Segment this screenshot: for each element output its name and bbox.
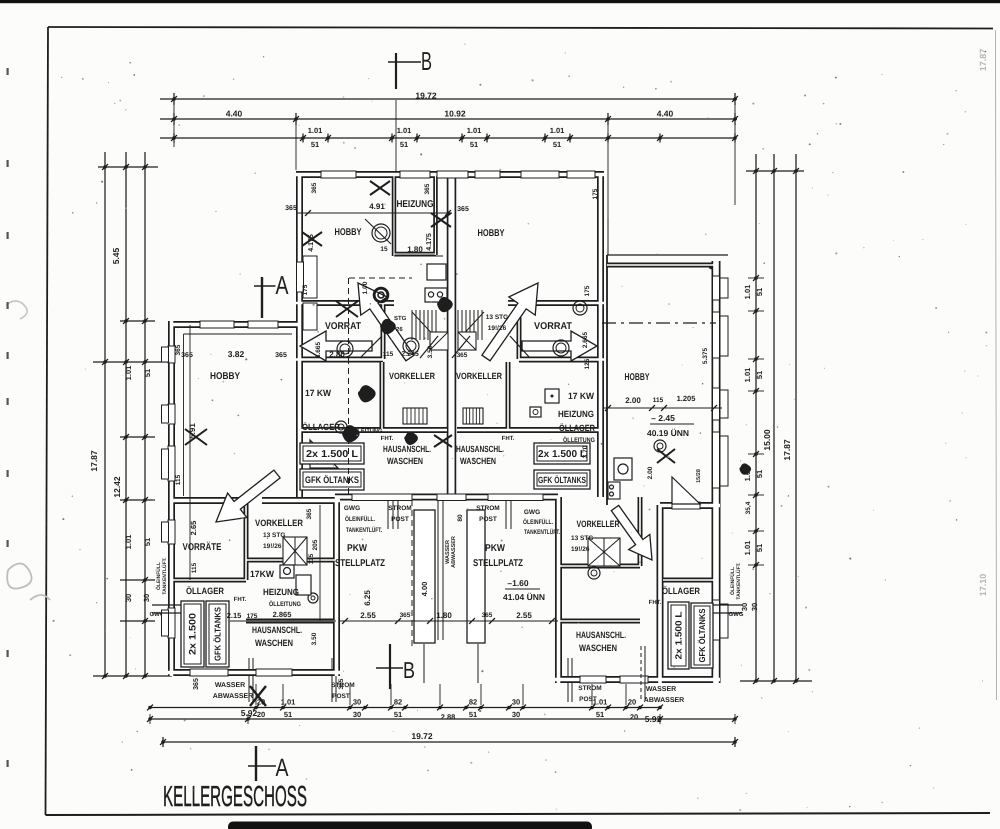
svg-text:2x 1.500 L: 2x 1.500 L bbox=[674, 611, 684, 660]
svg-text:GFK ÖLTANKS: GFK ÖLTANKS bbox=[538, 475, 586, 485]
svg-text:2.865: 2.865 bbox=[273, 610, 292, 619]
svg-text:2x 1.500 L: 2x 1.500 L bbox=[538, 449, 586, 460]
svg-text:WASCHEN: WASCHEN bbox=[255, 638, 293, 648]
svg-text:30: 30 bbox=[750, 603, 759, 611]
svg-text:19.72: 19.72 bbox=[411, 731, 433, 741]
svg-text:WASCHEN: WASCHEN bbox=[387, 456, 423, 466]
svg-text:17KW: 17KW bbox=[250, 569, 274, 579]
svg-text:2.88: 2.88 bbox=[441, 713, 456, 722]
svg-text:4.91: 4.91 bbox=[369, 202, 385, 211]
svg-text:115: 115 bbox=[653, 397, 664, 404]
svg-text:WASSER: WASSER bbox=[215, 682, 245, 689]
svg-text:82: 82 bbox=[469, 698, 477, 707]
svg-text:13 STG: 13 STG bbox=[486, 314, 508, 321]
svg-text:51: 51 bbox=[553, 140, 561, 149]
svg-text:ÖLLAGER: ÖLLAGER bbox=[559, 423, 595, 433]
svg-text:19!/26: 19!/26 bbox=[263, 543, 282, 550]
svg-text:51: 51 bbox=[394, 710, 402, 719]
svg-text:KELLERGESCHOSS: KELLERGESCHOSS bbox=[163, 781, 307, 813]
svg-text:365: 365 bbox=[285, 205, 297, 212]
svg-text:HAUSANSCHL.: HAUSANSCHL. bbox=[252, 625, 302, 635]
svg-text:1.01: 1.01 bbox=[308, 126, 323, 135]
svg-text:13 STG: 13 STG bbox=[263, 532, 285, 539]
svg-text:51: 51 bbox=[470, 140, 478, 149]
svg-text:3.50: 3.50 bbox=[427, 345, 434, 358]
svg-text:GWG: GWG bbox=[524, 509, 540, 516]
svg-text:365: 365 bbox=[181, 352, 193, 359]
svg-text:ABWASSER: ABWASSER bbox=[213, 693, 253, 700]
svg-text:HAUSANSCHL.: HAUSANSCHL. bbox=[456, 444, 504, 454]
svg-text:3.665: 3.665 bbox=[315, 341, 322, 358]
svg-text:82: 82 bbox=[394, 698, 402, 707]
svg-text:30: 30 bbox=[142, 594, 151, 602]
svg-text:WASCHEN: WASCHEN bbox=[460, 456, 496, 466]
svg-text:WASSER: WASSER bbox=[646, 686, 676, 693]
svg-text:51: 51 bbox=[755, 470, 764, 478]
svg-text:15/28: 15/28 bbox=[696, 469, 702, 483]
svg-text:TANKENTLÜFT.: TANKENTLÜFT. bbox=[524, 528, 560, 536]
svg-text:VORKELLER: VORKELLER bbox=[577, 519, 620, 529]
svg-text:30: 30 bbox=[353, 698, 361, 707]
svg-text:– 2.45: – 2.45 bbox=[651, 413, 675, 423]
svg-text:5.45: 5.45 bbox=[111, 247, 121, 264]
svg-text:80: 80 bbox=[457, 514, 464, 522]
svg-text:30: 30 bbox=[124, 594, 133, 602]
svg-text:15: 15 bbox=[380, 246, 388, 253]
svg-text:175: 175 bbox=[302, 284, 309, 295]
svg-text:HOBBY: HOBBY bbox=[478, 228, 505, 239]
svg-text:STELLPLATZ: STELLPLATZ bbox=[473, 558, 523, 569]
svg-text:20: 20 bbox=[628, 698, 636, 707]
svg-text:30: 30 bbox=[512, 710, 520, 719]
svg-text:365: 365 bbox=[482, 612, 493, 619]
svg-text:51: 51 bbox=[143, 369, 152, 377]
svg-text:2x 1.500 L: 2x 1.500 L bbox=[306, 449, 358, 460]
svg-text:115: 115 bbox=[308, 553, 315, 564]
svg-text:A: A bbox=[276, 270, 289, 300]
svg-text:51: 51 bbox=[143, 538, 152, 546]
svg-text:ÖLLEITUNG: ÖLLEITUNG bbox=[269, 600, 301, 608]
svg-text:2.15: 2.15 bbox=[227, 611, 242, 620]
svg-text:1.01: 1.01 bbox=[124, 366, 133, 381]
svg-text:4.40: 4.40 bbox=[226, 109, 243, 119]
svg-text:1.80: 1.80 bbox=[407, 245, 423, 254]
svg-text:365: 365 bbox=[457, 206, 469, 213]
svg-text:51: 51 bbox=[755, 544, 764, 552]
svg-text:51: 51 bbox=[284, 710, 292, 719]
svg-text:GWG: GWG bbox=[344, 505, 360, 512]
svg-text:1.205: 1.205 bbox=[677, 394, 696, 403]
svg-text:5.92: 5.92 bbox=[241, 708, 258, 718]
svg-text:POST: POST bbox=[391, 516, 409, 523]
svg-text:A: A bbox=[276, 754, 289, 782]
svg-text:115: 115 bbox=[191, 562, 198, 573]
svg-text:5.92: 5.92 bbox=[645, 714, 662, 724]
svg-text:STROM: STROM bbox=[578, 685, 601, 692]
svg-text:19!/26: 19!/26 bbox=[488, 325, 507, 332]
svg-text:51: 51 bbox=[469, 710, 477, 719]
svg-text:17.87: 17.87 bbox=[89, 450, 99, 472]
svg-text:TANKENTLÜFT.: TANKENTLÜFT. bbox=[346, 526, 382, 534]
svg-text:51: 51 bbox=[596, 710, 604, 719]
svg-text:STROM: STROM bbox=[476, 505, 499, 512]
svg-text:ÖLEINFÜLL.: ÖLEINFÜLL. bbox=[345, 515, 375, 523]
svg-text:ÖLEINFÜLL: ÖLEINFÜLL bbox=[729, 567, 736, 595]
svg-text:ÖLEINFÜLL: ÖLEINFÜLL bbox=[155, 562, 162, 590]
svg-text:TANKENTLÜFT.: TANKENTLÜFT. bbox=[161, 557, 168, 595]
svg-text:POST: POST bbox=[332, 693, 350, 700]
svg-text:175: 175 bbox=[247, 613, 258, 620]
svg-text:30: 30 bbox=[512, 698, 520, 707]
svg-text:ABWASSER: ABWASSER bbox=[644, 697, 684, 704]
svg-text:VORKELLER: VORKELLER bbox=[389, 371, 435, 381]
svg-text:STROM: STROM bbox=[331, 682, 354, 689]
svg-text:51: 51 bbox=[311, 140, 319, 149]
svg-text:2.80: 2.80 bbox=[329, 350, 345, 359]
svg-text:20: 20 bbox=[257, 710, 265, 719]
svg-text:GFK ÖLTANKS: GFK ÖLTANKS bbox=[213, 607, 223, 661]
svg-text:4.175: 4.175 bbox=[308, 234, 315, 252]
svg-text:STROM: STROM bbox=[388, 505, 411, 512]
svg-text:HOBBY: HOBBY bbox=[625, 372, 650, 383]
svg-text:19!/26: 19!/26 bbox=[571, 546, 590, 553]
svg-text:GFK ÖLTANKS: GFK ÖLTANKS bbox=[697, 608, 707, 662]
svg-text:2.665: 2.665 bbox=[582, 331, 589, 348]
svg-text:365: 365 bbox=[400, 612, 411, 619]
svg-text:VORKELLER: VORKELLER bbox=[456, 371, 502, 381]
svg-text:5.375: 5.375 bbox=[702, 347, 709, 364]
svg-text:17.87: 17.87 bbox=[978, 49, 988, 72]
svg-text:20: 20 bbox=[630, 713, 638, 722]
svg-text:ABWASSER: ABWASSER bbox=[451, 536, 457, 568]
svg-text:6.25: 6.25 bbox=[363, 590, 372, 606]
svg-text:3.50: 3.50 bbox=[311, 632, 318, 645]
svg-text:175: 175 bbox=[584, 285, 591, 296]
svg-text:FHT.: FHT. bbox=[234, 596, 247, 603]
svg-text:WASCHEN: WASCHEN bbox=[579, 643, 617, 653]
svg-text:51: 51 bbox=[400, 140, 408, 149]
svg-text:13 STG: 13 STG bbox=[571, 535, 593, 542]
svg-text:10.92: 10.92 bbox=[444, 109, 466, 119]
svg-text:VORRÄTE: VORRÄTE bbox=[183, 541, 222, 553]
svg-text:2x 1.500: 2x 1.500 bbox=[188, 613, 199, 655]
svg-text:4.175: 4.175 bbox=[426, 233, 433, 251]
svg-text:ÖLEINFÜLL.: ÖLEINFÜLL. bbox=[523, 518, 553, 526]
svg-text:FHT.: FHT. bbox=[502, 435, 515, 442]
svg-text:125: 125 bbox=[584, 358, 591, 369]
svg-text:35,4: 35,4 bbox=[745, 501, 752, 514]
svg-text:17 KW: 17 KW bbox=[568, 391, 594, 401]
svg-text:26: 26 bbox=[396, 326, 403, 333]
svg-text:1.01: 1.01 bbox=[467, 126, 482, 135]
svg-text:POST: POST bbox=[579, 696, 597, 703]
svg-text:30: 30 bbox=[353, 710, 361, 719]
svg-text:PKW: PKW bbox=[347, 543, 368, 554]
svg-text:1.01: 1.01 bbox=[550, 126, 565, 135]
svg-text:1.01: 1.01 bbox=[397, 126, 412, 135]
svg-text:ÖLLEITUNG: ÖLLEITUNG bbox=[350, 427, 383, 435]
svg-text:365: 365 bbox=[275, 352, 287, 359]
svg-text:1.80: 1.80 bbox=[436, 611, 452, 620]
svg-text:365: 365 bbox=[306, 508, 313, 519]
svg-text:365: 365 bbox=[193, 678, 200, 690]
svg-text:365: 365 bbox=[424, 183, 431, 194]
svg-text:1.01: 1.01 bbox=[743, 368, 752, 383]
svg-text:4.40: 4.40 bbox=[657, 109, 674, 119]
svg-text:1.01: 1.01 bbox=[743, 285, 752, 300]
svg-text:HAUSANSCHL.: HAUSANSCHL. bbox=[383, 444, 431, 454]
svg-text:40.19 ÜNN: 40.19 ÜNN bbox=[647, 428, 689, 438]
svg-text:17 KW: 17 KW bbox=[305, 388, 331, 398]
svg-text:205: 205 bbox=[312, 539, 319, 550]
svg-text:51: 51 bbox=[755, 371, 764, 379]
svg-text:HOBBY: HOBBY bbox=[335, 227, 362, 238]
svg-text:GFK ÖLTANKS: GFK ÖLTANKS bbox=[305, 474, 359, 486]
svg-text:FHT.: FHT. bbox=[381, 435, 394, 442]
svg-text:2.55: 2.55 bbox=[360, 611, 376, 620]
svg-text:STG: STG bbox=[394, 315, 407, 322]
svg-text:175: 175 bbox=[592, 188, 599, 199]
svg-text:FHT.: FHT. bbox=[649, 599, 662, 606]
svg-text:1.01: 1.01 bbox=[124, 535, 133, 550]
svg-text:365: 365 bbox=[175, 344, 182, 355]
svg-text:1.00: 1.00 bbox=[362, 281, 369, 294]
svg-text:3.70: 3.70 bbox=[582, 445, 589, 458]
svg-text:19.72: 19.72 bbox=[415, 91, 437, 101]
svg-text:2.65: 2.65 bbox=[189, 521, 198, 536]
svg-text:STELLPLATZ: STELLPLATZ bbox=[335, 558, 385, 569]
svg-text:51: 51 bbox=[755, 288, 764, 296]
svg-text:365: 365 bbox=[311, 182, 318, 193]
svg-text:POST: POST bbox=[479, 516, 497, 523]
svg-text:B: B bbox=[421, 46, 432, 76]
svg-text:–1.60: –1.60 bbox=[507, 578, 529, 588]
svg-text:VORRAT: VORRAT bbox=[534, 321, 572, 332]
svg-text:2.245: 2.245 bbox=[401, 351, 419, 358]
svg-text:15.00: 15.00 bbox=[762, 429, 772, 451]
svg-text:B: B bbox=[403, 657, 415, 683]
svg-text:12.42: 12.42 bbox=[112, 476, 122, 498]
svg-text:PKW: PKW bbox=[485, 543, 506, 554]
svg-text:4.00: 4.00 bbox=[420, 582, 429, 597]
svg-text:HEIZUNG: HEIZUNG bbox=[263, 587, 299, 597]
svg-text:115: 115 bbox=[175, 474, 182, 485]
svg-text:ÖLLAGER: ÖLLAGER bbox=[662, 586, 700, 596]
svg-text:2.00: 2.00 bbox=[625, 396, 641, 405]
svg-text:HOBBY: HOBBY bbox=[210, 371, 240, 382]
svg-text:30: 30 bbox=[740, 603, 749, 611]
svg-text:2.55: 2.55 bbox=[516, 611, 532, 620]
svg-text:TANKENTLÜFT.: TANKENTLÜFT. bbox=[735, 562, 742, 600]
svg-text:41.04 ÜNN: 41.04 ÜNN bbox=[503, 592, 545, 602]
svg-text:17.10: 17.10 bbox=[978, 574, 988, 597]
svg-text:115: 115 bbox=[383, 351, 394, 358]
svg-text:VORRAT: VORRAT bbox=[325, 321, 361, 332]
svg-text:VORKELLER: VORKELLER bbox=[255, 518, 303, 528]
svg-text:365: 365 bbox=[457, 352, 468, 359]
svg-text:1.01: 1.01 bbox=[743, 541, 752, 556]
svg-text:HEIZUNG: HEIZUNG bbox=[558, 409, 594, 419]
svg-text:2.00: 2.00 bbox=[647, 466, 654, 479]
svg-text:HAUSANSCHL.: HAUSANSCHL. bbox=[576, 630, 626, 640]
svg-text:ÖLLEITUNG: ÖLLEITUNG bbox=[563, 436, 595, 444]
svg-text:ÖLLAGER: ÖLLAGER bbox=[302, 422, 340, 432]
svg-text:5.91: 5.91 bbox=[188, 423, 197, 439]
svg-text:ÖLLAGER: ÖLLAGER bbox=[186, 586, 224, 596]
svg-text:17.87: 17.87 bbox=[782, 439, 792, 461]
svg-text:3.82: 3.82 bbox=[228, 349, 245, 359]
